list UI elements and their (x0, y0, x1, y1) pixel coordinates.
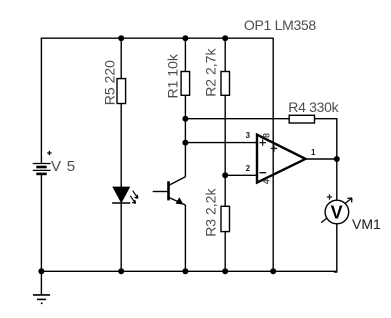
svg-text:R2 2,7k: R2 2,7k (202, 48, 218, 97)
label pin 3 (246, 131, 251, 140)
resistor R1 (181, 72, 190, 96)
wire collector lead (184, 143, 186, 177)
label R4 330k (288, 99, 339, 115)
label pin 1 (311, 148, 316, 157)
label pin 4 (262, 179, 272, 184)
junction R1 top (182, 35, 188, 41)
wire R1 top lead (184, 38, 186, 71)
label pin 2 (246, 164, 251, 173)
junction R5 top (118, 35, 124, 41)
label R1 10k (164, 53, 180, 98)
op-amp inverting minus marker (259, 172, 266, 174)
svg-text:R1 10k: R1 10k (164, 53, 180, 98)
op-amp U1 triangle (257, 135, 306, 183)
junction R2 top (222, 35, 228, 41)
LED D1 (112, 187, 138, 203)
junction bottom-left node (38, 268, 44, 274)
wire R5 top lead (120, 38, 122, 78)
wire R2 top lead (224, 38, 226, 71)
op-amp supply plus marker (271, 145, 277, 151)
junction op-amp supply bottom (270, 268, 276, 274)
wire node A down to pin3 node (184, 119, 186, 143)
wire bottom bus (41, 270, 336, 272)
junction emitter bottom (182, 268, 188, 274)
voltmeter VM1 (321, 198, 352, 224)
svg-text:VM1: VM1 (352, 216, 381, 232)
resistor R2 (221, 72, 230, 96)
svg-text:3: 3 (246, 131, 251, 140)
junction R3 bottom (222, 268, 228, 274)
label R3 2,2k (202, 188, 218, 237)
transistor Q1 (153, 177, 186, 205)
label pin 8 (262, 133, 272, 138)
label V 5 (51, 158, 76, 175)
op-amp noninverting plus marker (259, 139, 266, 145)
wire R3 bottom lead (224, 232, 226, 272)
wire voltmeter bottom lead (334, 224, 337, 273)
svg-text:OP1 LM358: OP1 LM358 (244, 17, 317, 33)
junction node A R4 tap (182, 116, 188, 122)
resistor R5 (117, 79, 126, 104)
voltmeter VM1 plus marker (327, 194, 332, 199)
junction collector pin3 node (182, 140, 188, 146)
junction LED bottom (118, 268, 124, 274)
wire R3 top lead (224, 175, 226, 206)
svg-text:4: 4 (262, 179, 272, 184)
wire op-amp supply V+ and V- through pins 8 and 4 (272, 38, 274, 271)
svg-text:1: 1 (311, 148, 316, 157)
svg-text:2: 2 (246, 164, 251, 173)
label OP1 LM358 (244, 17, 317, 33)
wire R4 to output node (315, 119, 337, 159)
junction pin2 node (222, 172, 228, 178)
svg-text:R5 220: R5 220 (102, 60, 118, 105)
wire battery negative lead (40, 175, 42, 272)
junction output node (334, 156, 340, 162)
wire LED bottom lead (120, 203, 122, 271)
svg-text:V 5: V 5 (51, 158, 76, 175)
battery V1 plus marker (47, 151, 51, 155)
wire R5 to LED (120, 104, 122, 188)
wire to op-amp pin 3 (185, 142, 256, 144)
wire R1 bottom lead (184, 95, 186, 118)
svg-text:V: V (331, 203, 343, 223)
wire to op-amp pin 2 (225, 174, 256, 176)
battery V1 (33, 164, 51, 174)
resistor R4 (289, 115, 314, 123)
wire R2 bottom lead (224, 95, 226, 175)
wire output node to voltmeter (336, 159, 338, 200)
label VM1 (352, 216, 381, 232)
wire top bus (41, 37, 274, 39)
label R5 220 (102, 60, 118, 105)
resistor R3 (221, 206, 230, 231)
wire battery positive lead (40, 38, 42, 164)
wire node A to R4 (185, 118, 289, 120)
svg-text:R4 330k: R4 330k (288, 99, 339, 115)
ground (33, 271, 50, 303)
label R2 2,7k (202, 48, 218, 97)
wire emitter lead (184, 205, 186, 271)
svg-text:R3 2,2k: R3 2,2k (202, 188, 218, 237)
svg-text:8: 8 (262, 133, 272, 138)
wire output pin 1 (306, 158, 337, 160)
